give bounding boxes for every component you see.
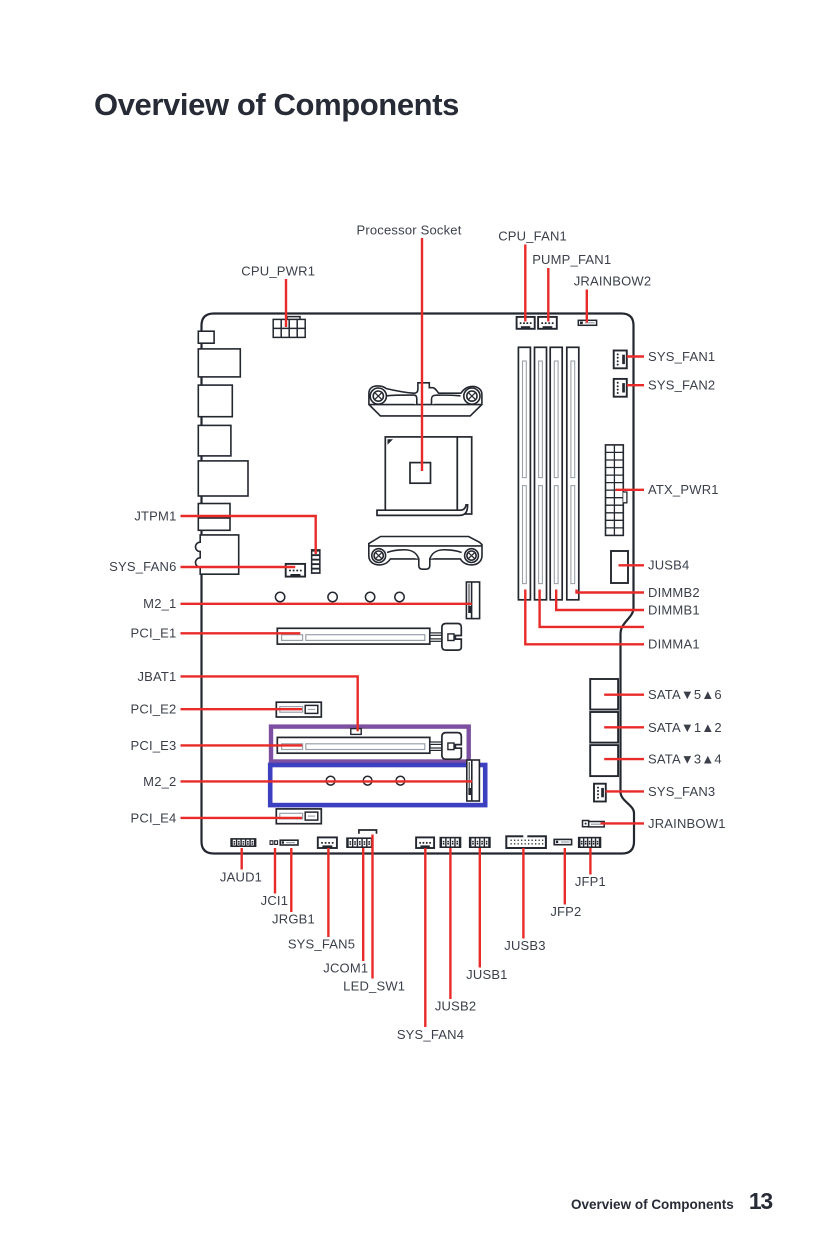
callout line JTPM1 xyxy=(181,516,316,554)
callout line PCI_E2 xyxy=(181,708,303,710)
callout line PCI_E4 xyxy=(181,817,303,819)
svg-text:SYS_FAN3: SYS_FAN3 xyxy=(648,784,715,799)
svg-text:CPU_FAN1: CPU_FAN1 xyxy=(498,229,567,244)
connector JFP2 xyxy=(554,839,571,844)
connector SYS_FAN6 (fan header) xyxy=(286,564,305,577)
rear I/O port USB block xyxy=(198,349,240,377)
page title xyxy=(94,87,459,123)
callout line SYS_FAN4 xyxy=(424,848,426,1027)
connector JUSB2 (pin header) xyxy=(440,837,462,848)
connector SATA group 3 xyxy=(590,745,618,776)
callout line M2_1 xyxy=(181,603,472,605)
highlight box purple (PCI_E3 group) xyxy=(271,727,469,762)
M.2 mounting holes M2_1 xyxy=(275,592,404,601)
svg-text:ATX_PWR1: ATX_PWR1 xyxy=(648,482,719,497)
svg-text:DIMMB2: DIMMB2 xyxy=(648,585,700,600)
connector JTPM1 xyxy=(311,549,321,574)
callout line PCI_E3 xyxy=(181,744,303,746)
callout line JFP1 xyxy=(589,848,591,875)
slot PCI_E4 (PCIe x1) xyxy=(276,809,321,824)
svg-text:M2_1: M2_1 xyxy=(143,596,176,611)
slot PCI_E3 (PCIe x16) xyxy=(277,733,461,760)
callout line JBAT1 xyxy=(181,676,358,731)
connector CPU_PWR1 (8-pin power) xyxy=(273,317,305,338)
svg-text:JCI1: JCI1 xyxy=(261,893,289,908)
svg-text:JUSB3: JUSB3 xyxy=(504,938,545,953)
connector JRGB1 xyxy=(280,840,298,845)
callout line PUMP_FAN1 xyxy=(547,268,549,322)
svg-text:JUSB1: JUSB1 xyxy=(466,967,507,982)
svg-text:JTPM1: JTPM1 xyxy=(134,509,176,524)
highlight box blue (M2_2 group) xyxy=(270,765,485,805)
svg-text:JBAT1: JBAT1 xyxy=(137,669,176,684)
connector JAUD1 (pin header) xyxy=(230,838,256,847)
rear I/O port small xyxy=(198,331,214,343)
rear I/O port stack a xyxy=(198,504,230,519)
svg-text:CPU_PWR1: CPU_PWR1 xyxy=(241,263,315,278)
footer xyxy=(0,1188,772,1215)
slot PCI_E2 (PCIe x1) xyxy=(276,702,321,717)
CPU socket (Processor Socket) xyxy=(377,437,472,516)
rear I/O port USB xyxy=(198,425,231,456)
svg-text:JFP1: JFP1 xyxy=(575,874,606,889)
svg-text:JCOM1: JCOM1 xyxy=(323,961,368,976)
svg-text:JRAINBOW1: JRAINBOW1 xyxy=(648,816,726,831)
switch LED_SW1 xyxy=(359,830,377,834)
callout line SATA34 xyxy=(604,758,644,760)
svg-text:PCI_E3: PCI_E3 xyxy=(130,738,176,753)
rear I/O port stack b xyxy=(198,518,230,530)
jumper JCI1 xyxy=(270,840,279,845)
jumper JBAT1 xyxy=(351,729,361,735)
connector SYS_FAN4 (fan header) xyxy=(416,837,434,848)
svg-text:DIMMB1: DIMMB1 xyxy=(648,602,700,617)
connector SYS_FAN2 (fan header) xyxy=(614,379,627,397)
svg-text:PCI_E1: PCI_E1 xyxy=(130,626,176,641)
svg-text:DIMMA1: DIMMA1 xyxy=(648,637,700,652)
svg-text:Processor Socket: Processor Socket xyxy=(356,223,461,238)
svg-text:JUSB4: JUSB4 xyxy=(648,558,689,573)
connector SATA group 2 xyxy=(590,712,618,743)
svg-text:JRAINBOW2: JRAINBOW2 xyxy=(574,274,652,289)
callout line DIMMA1 xyxy=(525,590,644,645)
callout line SYS_FAN5 xyxy=(327,848,329,937)
callout line JCOM1 xyxy=(362,848,364,961)
svg-text:JUSB2: JUSB2 xyxy=(435,999,476,1014)
callout line PCI_E1 xyxy=(181,632,301,634)
connector JUSB3 (USB 3 header) xyxy=(506,835,546,848)
rear I/O audio jack cluster xyxy=(196,535,239,574)
callout line LED_SW1 xyxy=(371,835,373,979)
svg-text:JAUD1: JAUD1 xyxy=(220,869,262,884)
callout line JCI1 xyxy=(274,848,276,894)
connector ATX_PWR1 (24-pin power) xyxy=(606,445,627,536)
svg-text:JRGB1: JRGB1 xyxy=(272,912,315,927)
connector JRAINBOW2 xyxy=(578,320,596,325)
callout line JRAINBOW1 xyxy=(601,822,645,824)
connector PUMP_FAN1 (fan header) xyxy=(538,317,557,329)
svg-text:SATA▼5▲6: SATA▼5▲6 xyxy=(648,687,722,702)
callout line JRAINBOW2 xyxy=(586,290,588,323)
CPU retention bracket top xyxy=(369,383,482,416)
DIMM slot 3 xyxy=(550,347,562,600)
svg-text:SYS_FAN2: SYS_FAN2 xyxy=(648,378,715,393)
DIMM slot 1 xyxy=(518,347,530,600)
svg-text:SYS_FAN5: SYS_FAN5 xyxy=(288,937,355,952)
callout line JFP2 xyxy=(564,848,566,905)
callout line JUSB1 xyxy=(479,848,481,968)
svg-text:LED_SW1: LED_SW1 xyxy=(343,978,405,993)
motherboard outline xyxy=(202,314,635,854)
callout line SYS_FAN2 xyxy=(627,384,644,386)
M.2 mounting holes M2_2 xyxy=(326,776,405,785)
connector JUSB1 (pin header) xyxy=(469,837,491,848)
connector SYS_FAN3 (fan header) xyxy=(594,784,606,802)
connector JRAINBOW1 xyxy=(583,821,605,827)
callout line SATA12 xyxy=(604,726,644,728)
callout line DIMMB1 xyxy=(556,590,644,611)
connector M2_2 (M.2 slot) xyxy=(467,760,480,801)
callout line JUSB3 xyxy=(522,848,524,939)
callout line ATX_PWR1 xyxy=(616,489,645,491)
callout line SYS_FAN3 xyxy=(606,790,645,792)
svg-text:SATA▼1▲2: SATA▼1▲2 xyxy=(648,720,722,735)
connector JUSB4 xyxy=(611,551,628,583)
svg-text:SYS_FAN6: SYS_FAN6 xyxy=(109,559,176,574)
callout line CPU_PWR1 xyxy=(285,279,287,327)
svg-text:SYS_FAN4: SYS_FAN4 xyxy=(397,1027,464,1042)
callout line CPU_FAN1 xyxy=(524,245,526,322)
svg-text:M2_2: M2_2 xyxy=(143,774,176,789)
callout line Processor Socket xyxy=(421,238,423,471)
callout line SYS_FAN1 xyxy=(627,355,644,357)
svg-text:SATA▼3▲4: SATA▼3▲4 xyxy=(648,752,722,767)
CPU retention bracket bottom xyxy=(369,537,482,570)
svg-text:JFP2: JFP2 xyxy=(550,904,581,919)
callout line M2_2 xyxy=(181,780,473,782)
callout line SYS_FAN6 xyxy=(181,566,296,568)
DIMM slot 2 xyxy=(535,347,547,600)
svg-text:PUMP_FAN1: PUMP_FAN1 xyxy=(532,252,611,267)
callout line DIMMA2 xyxy=(540,590,644,627)
connector CPU_FAN1 (fan header) xyxy=(517,317,535,329)
connector SYS_FAN5 (fan header) xyxy=(318,837,337,848)
connector SYS_FAN1 (fan header) xyxy=(614,351,627,369)
slot PCI_E1 (PCIe x16) xyxy=(277,624,461,651)
rear I/O port LAN xyxy=(198,385,232,417)
connector JCOM1 (pin header) xyxy=(346,837,373,848)
svg-text:PCI_E2: PCI_E2 xyxy=(130,702,176,717)
connector M2_1 (M.2 slot) xyxy=(466,582,479,619)
svg-text:SYS_FAN1: SYS_FAN1 xyxy=(648,349,715,364)
callout line JAUD1 xyxy=(240,848,242,870)
connector SATA group 1 xyxy=(590,679,618,710)
callout line JUSB4 xyxy=(619,564,645,566)
DIMM slot 4 xyxy=(567,347,579,600)
connector JFP1 (pin header) xyxy=(578,837,601,848)
callout line SATA56 xyxy=(604,694,644,696)
callout line DIMMB2 xyxy=(577,590,645,593)
callout line JUSB2 xyxy=(449,848,451,999)
svg-text:PCI_E4: PCI_E4 xyxy=(130,810,176,825)
callout line JRGB1 xyxy=(290,848,292,912)
rear I/O port video block xyxy=(198,461,248,496)
